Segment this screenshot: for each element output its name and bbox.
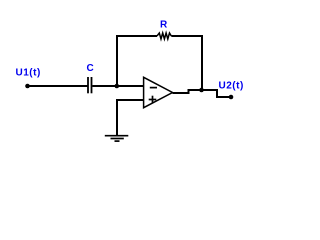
resistor R: [157, 33, 171, 39]
wire op-amp noninverting input: [116, 99, 143, 101]
svg-text:U2(t): U2(t): [219, 81, 244, 92]
wire capacitor to op-amp inverting input: [92, 85, 143, 87]
terminal U2 dot: [229, 95, 234, 100]
wire feedback top right: [171, 35, 203, 37]
capacitor C: [88, 77, 92, 93]
svg-text:R: R: [160, 20, 168, 31]
op-amp U1 triangle: [144, 77, 173, 107]
wire op-amp output: [173, 90, 232, 97]
ground: [105, 136, 129, 141]
wire to ground: [116, 100, 118, 136]
svg-text:U1(t): U1(t): [16, 68, 41, 79]
node B junction dot (output/feedback): [199, 88, 204, 93]
wire feedback left vertical: [116, 35, 118, 87]
svg-text:C: C: [87, 63, 94, 74]
wire U1 to capacitor: [28, 85, 88, 87]
wire feedback right vertical: [201, 35, 203, 90]
op-amp plus pin mark: [149, 96, 157, 104]
op-amp minus pin mark: [150, 87, 157, 89]
wire feedback top left: [116, 35, 157, 37]
terminal U1 dot: [25, 84, 30, 89]
node A junction dot (input/feedback): [115, 84, 120, 89]
